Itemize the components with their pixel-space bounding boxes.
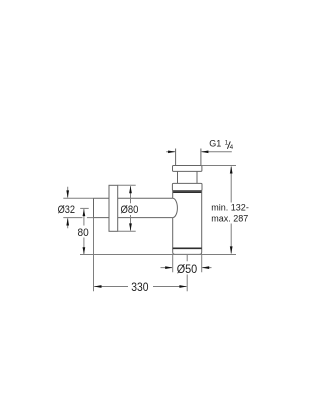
label G1 1/4: [209, 139, 233, 152]
arrowhead min/max down: [230, 246, 233, 254]
330 right extension line: [186, 255, 188, 292]
80 centerline extension: [80, 207, 89, 209]
svg-text:Ø80: Ø80: [121, 204, 139, 216]
inlet pipe top line: [94, 197, 173, 199]
bottom cap with rounded corners: [173, 249, 202, 254]
330 left extension line: [93, 218, 95, 292]
flange nut: [173, 166, 202, 172]
bottom long extension line: [80, 254, 236, 256]
Ø32 arrow tails: [67, 187, 69, 229]
tailpiece thread pipe: [176, 149, 201, 166]
G1 1/4 dimension lines: [166, 151, 232, 153]
Ø80 extension lines: [118, 185, 136, 231]
inlet pipe bottom line: [94, 217, 173, 219]
arrowhead O80 down: [129, 223, 132, 231]
svg-text:Ø32: Ø32: [58, 204, 75, 216]
svg-text:G1: G1: [209, 139, 221, 149]
svg-text:4: 4: [230, 144, 234, 151]
Ø80 dimension line: [130, 186, 132, 230]
svg-text:1: 1: [225, 140, 229, 147]
arrowhead O32 down: [66, 190, 69, 198]
arrowhead O50 right: [165, 266, 173, 269]
svg-text:min. 132-: min. 132-: [211, 202, 249, 212]
svg-text:80: 80: [78, 227, 89, 239]
svg-text:Ø50: Ø50: [177, 264, 198, 276]
Ø50 dimension arrow tails: [161, 267, 212, 269]
inlet pipe bulge arc: [173, 198, 178, 217]
wall rosette: [109, 185, 118, 231]
neck: [178, 171, 198, 183]
arrowhead O50 left: [202, 266, 210, 269]
80 dimension line: [83, 209, 85, 254]
pipe wall-end cap: [93, 198, 95, 217]
arrowhead 80 up: [83, 209, 86, 216]
arrowhead 80 down: [83, 247, 86, 254]
cup body right edge + Ø50 ext: [201, 191, 203, 250]
min/max dimension line: [230, 167, 232, 254]
body thick top line: [173, 191, 202, 193]
body thick bottom line: [173, 247, 202, 249]
cup top nut: [172, 183, 202, 190]
arrowhead G right: [201, 150, 209, 153]
arrowhead 330 right: [179, 285, 187, 288]
min/max top extension: [202, 165, 236, 167]
arrowhead G left: [168, 150, 176, 153]
arrowhead O32 up: [66, 218, 69, 226]
arrowhead min/max up: [230, 166, 233, 174]
Ø32 extension lines: [63, 198, 93, 217]
330 dimension line: [94, 286, 186, 288]
cup body left edge: [172, 191, 174, 250]
arrowhead 330 left: [94, 285, 102, 288]
svg-text:330: 330: [131, 282, 148, 294]
Ø50 extension lines: [173, 255, 202, 273]
arrowhead O80 up: [129, 186, 132, 194]
svg-text:max. 287: max. 287: [211, 214, 248, 224]
